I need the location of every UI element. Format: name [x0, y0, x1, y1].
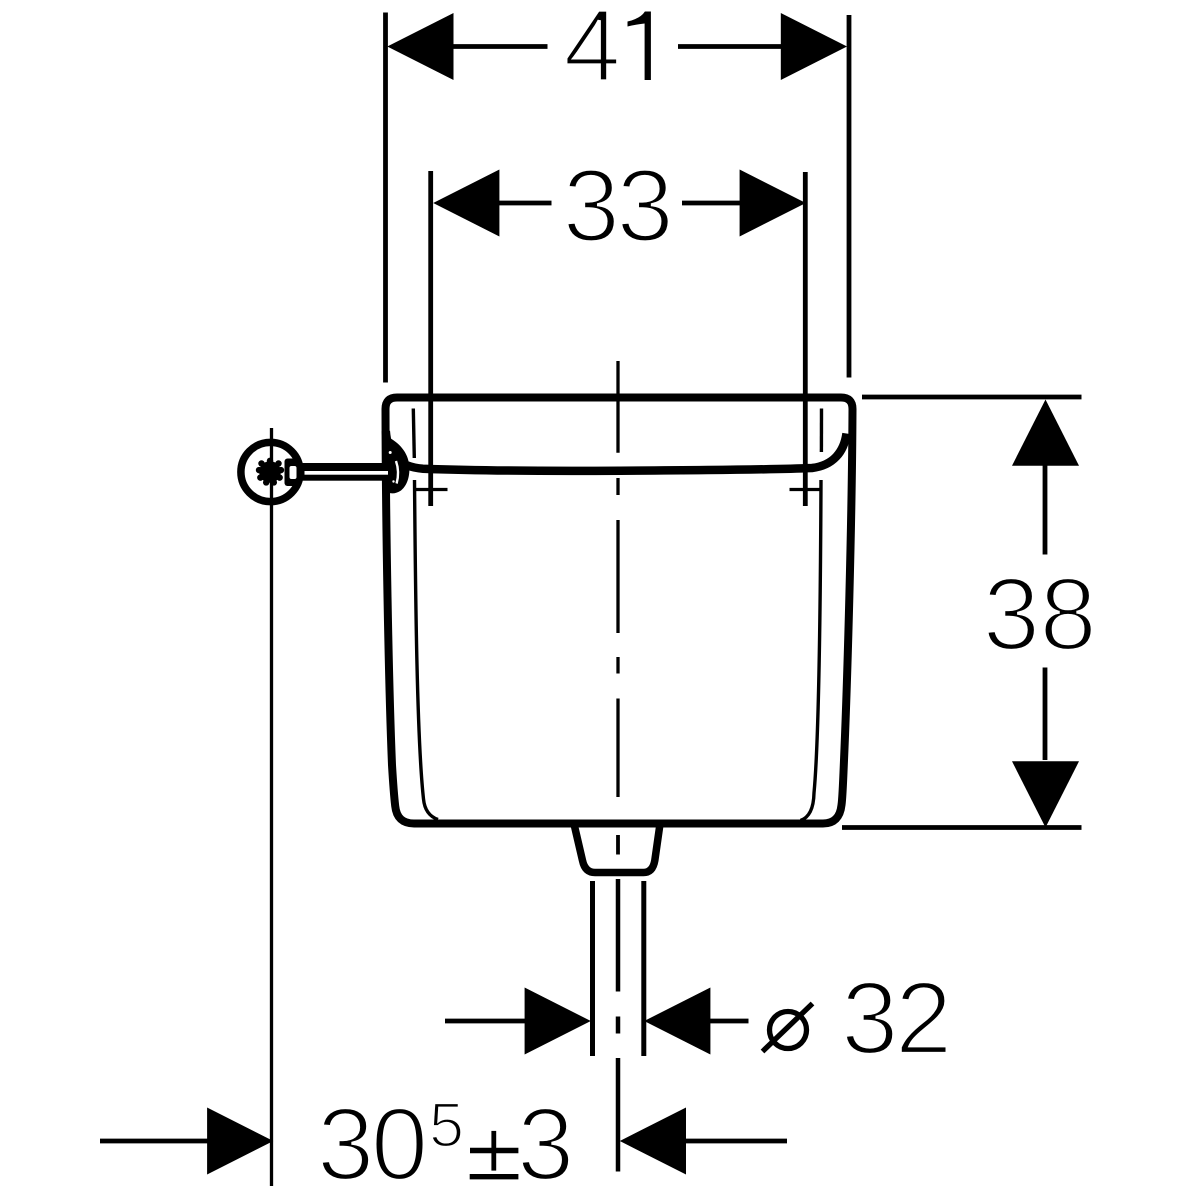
dimension 41 right arrowhead — [781, 13, 847, 80]
centerline tank dot 3 — [616, 835, 620, 855]
extension line left 41 — [383, 13, 388, 383]
dimension 305±3 left arrowhead — [207, 1108, 273, 1175]
dimension ø32 right tail — [710, 1019, 749, 1024]
svg-text:5: 5 — [429, 1091, 464, 1161]
flush pipe right wall — [641, 881, 646, 1056]
centerline tank dash 3 — [616, 699, 619, 798]
svg-text:32: 32 — [841, 961, 949, 1076]
reference line bottom right — [842, 825, 1082, 830]
flush pipe left wall — [590, 881, 595, 1056]
dimension 305±3 right tail — [684, 1139, 787, 1144]
knob coupling block — [285, 459, 299, 487]
centerline tank dash 2 — [616, 520, 619, 633]
centerline tank dot 2 — [616, 657, 619, 674]
reference line top right — [862, 395, 1082, 400]
cistern inner wall right lower — [801, 480, 822, 821]
dimension 33 right tail — [682, 201, 741, 206]
dimension 38 down arrowhead — [1012, 761, 1079, 827]
fixing hole cross left — [416, 488, 448, 491]
inlet spud blob — [384, 436, 409, 494]
dimension 33 left arrowhead — [433, 170, 499, 237]
svg-text:33: 33 — [563, 148, 671, 263]
centerline pipe dash 2 — [616, 1058, 621, 1172]
knob centerline — [270, 428, 273, 1186]
flush valve trapezoid — [574, 824, 660, 873]
dimension 41 left arrowhead — [387, 13, 453, 80]
centerline tank dot 1 — [616, 478, 619, 495]
cistern outer outline — [386, 398, 853, 824]
knob coupling arc — [297, 460, 301, 485]
inlet spud white dots — [389, 451, 392, 454]
dimension 33 right arrowhead — [740, 170, 806, 237]
dimension 305±3 left tail — [100, 1139, 209, 1144]
svg-text:38: 38 — [983, 557, 1097, 672]
cistern rim sag curve — [386, 431, 847, 471]
svg-text:4: 4 — [564, 0, 621, 103]
knob coupling hole — [290, 466, 297, 479]
extension line right 33 — [803, 172, 808, 506]
svg-text:30: 30 — [317, 1087, 425, 1200]
plus-minus sign — [470, 1148, 518, 1153]
extension line left 33 — [428, 171, 433, 506]
dimension ø32 left tail — [445, 1019, 525, 1024]
svg-text:3: 3 — [517, 1087, 574, 1200]
flush valve rod white stripe — [305, 471, 389, 475]
knob gear teeth — [256, 458, 284, 486]
dimension 38 upper stem — [1043, 463, 1048, 555]
cistern inner wall right upper — [820, 409, 823, 453]
dimension ø32 left arrowhead — [525, 988, 591, 1055]
knob gear core — [259, 461, 281, 483]
dimension 305±3 right arrowhead — [620, 1108, 686, 1175]
inlet spud white arc — [396, 461, 398, 484]
extension line right 41 — [847, 15, 852, 378]
dimension 38 lower stem — [1043, 668, 1048, 761]
dimension 41 left tail — [452, 44, 548, 49]
dimension 41 right tail — [678, 44, 782, 49]
knob outer circle — [241, 442, 300, 501]
dimension 38 up arrowhead — [1012, 400, 1079, 466]
flush valve rod — [301, 463, 390, 481]
cistern inner wall left upper — [413, 409, 414, 459]
centerline pipe dash 1 — [616, 879, 621, 992]
dimension ø32 label diameter symbol — [770, 1012, 807, 1049]
centerline pipe dot — [616, 1017, 621, 1034]
fixing hole cross right — [790, 488, 822, 491]
centerline tank dash 1 — [616, 361, 619, 453]
dimension 33 left tail — [498, 201, 552, 206]
dimension ø32 right arrowhead — [644, 988, 710, 1055]
cistern inner wall left lower — [415, 480, 439, 820]
